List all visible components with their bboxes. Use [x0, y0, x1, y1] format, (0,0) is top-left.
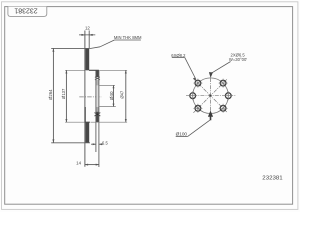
svg-text:MIN THK 8MM: MIN THK 8MM: [114, 35, 142, 40]
dimension OD264 line: [52, 48, 54, 142]
6.5 dimension arrows: [91, 143, 96, 145]
bolt hole SE: [219, 104, 228, 113]
step bottom surface dark segment: [85, 121, 90, 123]
svg-text:Ø264: Ø264: [48, 89, 53, 100]
thickness dimension arrows: [79, 34, 95, 36]
hat wall band upper dark: [96, 70, 99, 77]
svg-text:232381: 232381: [14, 6, 37, 15]
pin hole section mark upper: [95, 77, 100, 80]
bolt hole NW: [193, 79, 202, 88]
dimension D47 line: [125, 70, 127, 122]
svg-text:6.5: 6.5: [102, 140, 108, 145]
dimension D137 line: [65, 70, 67, 122]
hat wall left edge line: [95, 70, 97, 152]
MIN THK note leader: [90, 47, 101, 49]
centerline (axis): [79, 96, 101, 98]
svg-text:W=30°00': W=30°00': [229, 57, 247, 62]
friction ring lower band (hatched): [85, 122, 89, 143]
thickness stub right line: [88, 31, 90, 49]
leader + label 6xD8.2: [171, 53, 196, 81]
bolt hole SW: [193, 104, 202, 113]
top face extension line: [51, 47, 89, 49]
bolt hole E: [224, 91, 233, 100]
pitch circle: [193, 78, 229, 114]
friction ring upper band (hatched): [85, 48, 89, 70]
svg-text:232381: 232381: [262, 175, 282, 181]
bolt hole W: [188, 91, 197, 100]
leader + label 2xD6.5 W30: [209, 53, 247, 78]
step top surface: [89, 69, 99, 71]
svg-text:14: 14: [76, 160, 81, 165]
disc left face line: [84, 31, 86, 167]
leader + label D100: [176, 111, 214, 137]
dimension D137 extension ticks: [65, 69, 84, 71]
D40 hole extension lines: [100, 84, 116, 86]
svg-text:6XØ8.2: 6XØ8.2: [171, 53, 186, 58]
svg-text:Ø47: Ø47: [120, 90, 125, 99]
hat outer face dark segment: [84, 107, 86, 122]
hat wall right edge line: [98, 70, 100, 167]
svg-text:12: 12: [85, 25, 90, 30]
hat wall bore zone light fill: [96, 85, 99, 106]
drawing border frame: [5, 7, 293, 205]
svg-text:Ø40: Ø40: [109, 91, 114, 100]
pin hole section mark lower: [95, 113, 101, 116]
part number box top-left: [8, 7, 47, 17]
hat wall band upper mid tone: [96, 80, 99, 86]
hat wall band lower dark: [96, 112, 99, 122]
D47 extension lines: [100, 69, 128, 71]
center mark spokes: [186, 78, 235, 120]
bolt hole NE: [219, 79, 228, 88]
hat wall band lower mid tone: [96, 107, 99, 112]
svg-text:Ø137: Ø137: [61, 88, 66, 99]
center dot: [209, 95, 211, 97]
dimension D40 line: [113, 85, 115, 106]
14 height dimension line: [85, 164, 99, 166]
bottom face extension line: [51, 142, 90, 144]
svg-text:Ø100: Ø100: [176, 132, 188, 137]
